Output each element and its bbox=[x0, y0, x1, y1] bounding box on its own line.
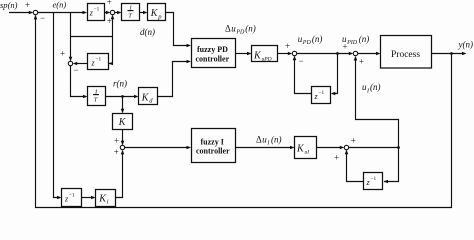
svg-text:I: I bbox=[266, 141, 270, 147]
svg-text:+: + bbox=[107, 16, 112, 26]
svg-text:d(n): d(n) bbox=[140, 27, 155, 37]
wire z5 to Ki bbox=[82, 197, 93, 199]
svg-text:y(n): y(n) bbox=[458, 40, 474, 50]
wire KuI to S5 bbox=[317, 147, 342, 149]
block z^-1 #4 bbox=[364, 173, 383, 190]
svg-text:(n): (n) bbox=[271, 135, 282, 145]
node accumulator tap bbox=[397, 146, 400, 149]
svg-text:+: + bbox=[60, 49, 65, 59]
wire e tap down x53 bbox=[54, 13, 59, 198]
wire S6 to S7 bbox=[297, 53, 352, 55]
svg-text:controller: controller bbox=[196, 147, 230, 156]
node r(n) tap bbox=[121, 95, 124, 98]
wire Kp to fuzzy PD input 1 bbox=[166, 13, 188, 46]
node uPD tap bbox=[336, 52, 339, 55]
wire setpoint input bbox=[9, 12, 30, 14]
svg-text:PD: PD bbox=[235, 30, 245, 36]
wire e(n) bbox=[38, 12, 84, 14]
summing junction S7 uPID bbox=[353, 51, 357, 55]
summing junction S4 integral input bbox=[120, 145, 124, 149]
wire z1 to S2 bbox=[105, 12, 109, 14]
wire K down into S4 bbox=[122, 130, 124, 145]
svg-text:r(n): r(n) bbox=[113, 79, 127, 89]
block 1/T #2 bbox=[88, 87, 106, 106]
block Process bbox=[381, 36, 432, 69]
wire S5 output bbox=[349, 147, 399, 149]
wire fuzzy I to KuI bbox=[236, 147, 292, 149]
svg-text:uPD: uPD bbox=[262, 57, 272, 63]
wire z4 out up into S5 bbox=[347, 151, 364, 182]
svg-text:p: p bbox=[157, 13, 162, 20]
svg-text:(n): (n) bbox=[359, 34, 370, 44]
svg-text:fuzzy PD: fuzzy PD bbox=[197, 45, 228, 54]
wire Process output bbox=[432, 53, 464, 55]
block fuzzy I controller bbox=[192, 129, 236, 163]
block Kp bbox=[148, 4, 166, 21]
block z^-1 #2 bbox=[88, 54, 109, 70]
block 1/T #1 bbox=[122, 4, 140, 21]
block z^-1 #3 bbox=[312, 87, 331, 104]
wire up into S2 bottom bbox=[112, 16, 114, 37]
svg-text:Process: Process bbox=[391, 50, 420, 60]
wire S3 down to 1/T #2 bbox=[71, 66, 85, 97]
svg-text:+: + bbox=[25, 0, 30, 10]
svg-text:Δ: Δ bbox=[256, 135, 262, 145]
block KuPD bbox=[252, 46, 278, 62]
svg-text:−1: −1 bbox=[371, 176, 377, 182]
svg-text:−: − bbox=[299, 56, 304, 66]
svg-text:+: + bbox=[285, 41, 290, 51]
block Kd bbox=[139, 88, 158, 105]
svg-text:+: + bbox=[351, 136, 356, 146]
wire r(n) down into K bbox=[122, 97, 124, 113]
wire S2 to 1/T bbox=[115, 12, 119, 14]
svg-text:+: + bbox=[359, 57, 364, 67]
svg-text:i: i bbox=[107, 199, 109, 206]
svg-text:K: K bbox=[118, 117, 127, 128]
wire down to z2 input bbox=[109, 37, 113, 64]
svg-text:−1: −1 bbox=[319, 90, 325, 96]
wire S4 to fuzzy I bbox=[125, 147, 188, 149]
wire z2 out to S3 bbox=[76, 63, 88, 65]
svg-text:T: T bbox=[128, 12, 132, 19]
svg-text:PID: PID bbox=[346, 40, 358, 46]
svg-text:controller: controller bbox=[196, 55, 230, 64]
wire KuPD to S6 bbox=[278, 53, 290, 55]
svg-text:e(n): e(n) bbox=[53, 0, 67, 10]
svg-text:+: + bbox=[114, 136, 119, 146]
wire Kd to fuzzy PD input 2 bbox=[158, 62, 188, 97]
svg-text:Δ: Δ bbox=[225, 24, 231, 34]
svg-text:(n): (n) bbox=[312, 34, 323, 44]
svg-text:(n): (n) bbox=[8, 0, 18, 10]
block z^-1 #1 bbox=[88, 4, 105, 21]
wire feedback loop bbox=[36, 16, 452, 208]
svg-text:T: T bbox=[94, 96, 98, 103]
wire z3 out up into S6 bbox=[295, 57, 312, 94]
svg-text:−1: −1 bbox=[69, 193, 75, 199]
svg-text:+: + bbox=[114, 147, 119, 157]
svg-text:−: − bbox=[40, 13, 45, 23]
svg-text:−1: −1 bbox=[94, 7, 100, 13]
svg-text:−1: −1 bbox=[96, 57, 102, 63]
wire uPD feedback down bbox=[332, 54, 338, 94]
wire 1/T to Kp bbox=[140, 12, 145, 14]
node y tap bbox=[450, 52, 453, 55]
block z^-1 #5 bbox=[62, 189, 82, 207]
block fuzzy PD controller bbox=[192, 39, 236, 68]
svg-text:+: + bbox=[107, 0, 112, 7]
summing junction S5 accumulator bbox=[344, 145, 348, 149]
wire 1/T2 out to Kd bbox=[106, 96, 136, 98]
svg-text:+: + bbox=[334, 153, 339, 163]
svg-text:(n): (n) bbox=[370, 82, 381, 92]
summing junction S3 rate bbox=[68, 61, 72, 65]
svg-text:fuzzy I: fuzzy I bbox=[201, 138, 224, 147]
block Ki bbox=[96, 190, 116, 207]
wire e tap down x70 bbox=[70, 13, 72, 37]
wire u_I riser bbox=[356, 57, 399, 148]
wire S7 to Process bbox=[358, 53, 377, 55]
svg-text:(n): (n) bbox=[245, 24, 256, 34]
svg-text:PD: PD bbox=[302, 40, 312, 46]
wire junction to x112 bbox=[71, 36, 113, 38]
summing junction S1 error bbox=[33, 10, 37, 14]
wire fuzzy PD to KuPD bbox=[236, 53, 249, 55]
block KuI bbox=[295, 137, 317, 159]
block K bbox=[113, 114, 133, 130]
svg-text:−: − bbox=[74, 65, 79, 75]
wire e down into S3 top bbox=[70, 37, 72, 61]
summing junction S6 uPD accumulator bbox=[292, 51, 296, 55]
svg-text:sp: sp bbox=[0, 0, 8, 10]
summing junction S2 bbox=[110, 10, 114, 14]
wire accumulator feedback down bbox=[384, 148, 399, 182]
wire Ki up into S4 bottom bbox=[116, 151, 123, 198]
